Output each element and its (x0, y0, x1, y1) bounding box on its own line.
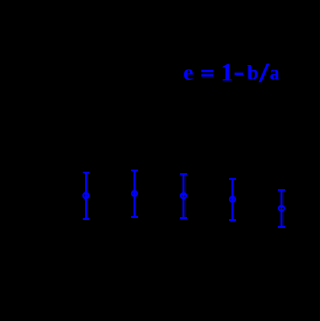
glyph = bottom bar (201, 74, 213, 76)
data point 2 marker right hole (135, 193, 136, 195)
data point 3 marker right hole (184, 195, 185, 197)
error bar 4 vertical line (232, 179, 234, 221)
error bar 3 vertical line (183, 174, 185, 219)
glyph minus (235, 73, 243, 76)
svg-text:a: a (270, 64, 280, 85)
error bar 1 bottom cap (83, 218, 89, 220)
data point 2 marker left hole (133, 193, 134, 195)
data point 3 marker disc (180, 192, 187, 199)
error bar 4 top cap (229, 178, 236, 180)
error bar 2 vertical line (134, 170, 136, 218)
data point 5 marker left hole (280, 208, 281, 210)
svg-text:b: b (247, 61, 259, 85)
error bar 4 bottom cap (229, 219, 236, 221)
error bar 2 bottom cap (131, 216, 138, 218)
data point 1 marker right hole (87, 195, 88, 197)
error bar 2 top cap (131, 169, 138, 171)
error bar 5 vertical line (281, 190, 283, 228)
error bar 3 top cap (180, 173, 187, 175)
data point 1 marker left hole (84, 195, 85, 197)
data point 4 marker right hole (233, 199, 234, 201)
error bar 1 vertical line (85, 172, 87, 220)
glyph slash (259, 64, 270, 83)
data point 4 marker left hole (231, 199, 232, 201)
svg-text:1: 1 (221, 60, 234, 87)
data point 1 marker disc (82, 192, 89, 199)
error bar 3 bottom cap (180, 217, 187, 219)
data point 3 marker left hole (182, 195, 183, 197)
data point 5 marker disc (278, 205, 285, 212)
error bar 5 top cap (278, 189, 285, 191)
glyph = top bar (201, 70, 213, 72)
data point 2 marker disc (131, 190, 138, 197)
svg-text:e: e (183, 60, 193, 85)
error bar 1 top cap (83, 172, 89, 174)
data point 4 marker disc (229, 196, 236, 203)
error bar 5 bottom cap (278, 226, 285, 228)
formula label: e = 1-b/a (183, 60, 279, 87)
data point 5 marker right hole (282, 208, 283, 210)
